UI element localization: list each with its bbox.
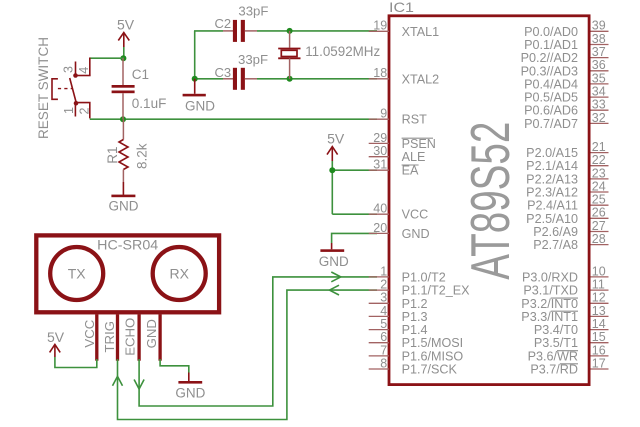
svg-text:12: 12	[592, 291, 606, 305]
svg-text:29: 29	[373, 131, 387, 145]
svg-text:35: 35	[592, 71, 606, 85]
pin 11 P3.1/TXD (right)	[523, 278, 608, 298]
svg-text:P0.1/AD1: P0.1/AD1	[524, 38, 578, 52]
svg-text:P3.0/RXD: P3.0/RXD	[522, 270, 578, 284]
svg-text:6: 6	[380, 330, 387, 344]
svg-text:9: 9	[380, 107, 387, 121]
svg-text:RST: RST	[402, 113, 427, 127]
arrow ECHO right (into IC pin 1)	[331, 272, 341, 282]
node junction XTAL1/crystal	[287, 28, 293, 34]
svg-text:HC-SR04: HC-SR04	[97, 236, 158, 252]
svg-text:28: 28	[592, 232, 606, 246]
wire junction to switch pin4	[90, 57, 124, 59]
svg-text:TX: TX	[68, 266, 87, 282]
pin 32 P0.7/AD7 (right)	[524, 111, 608, 131]
node junction C2/C3/GND	[192, 76, 198, 82]
svg-text:C1: C1	[132, 67, 149, 82]
wire C2 left to C3 left vertical	[194, 31, 196, 79]
pin 31 EA (left)	[369, 158, 419, 178]
ground GND under C2/C3	[183, 79, 216, 114]
svg-text:P0.3//AD3: P0.3//AD3	[521, 64, 578, 78]
wire C3 to IC XTAL2 pin 18	[257, 78, 377, 80]
svg-text:P1.5/MOSI: P1.5/MOSI	[402, 336, 464, 350]
svg-text:34: 34	[592, 85, 606, 99]
pin 17 P3.7/RD (right)	[530, 356, 608, 376]
transducer RX circle	[153, 247, 206, 300]
pin 37 P0.2//AD2 (right)	[521, 45, 609, 65]
resistor R1	[119, 119, 128, 182]
svg-text:RESET SWITCH: RESET SWITCH	[36, 37, 51, 139]
pin 30 ALE (left)	[369, 144, 426, 164]
svg-text:1: 1	[62, 107, 76, 114]
node junction RST/C1/R1	[120, 116, 126, 122]
svg-text:33: 33	[592, 98, 606, 112]
svg-text:C2: C2	[215, 16, 232, 31]
svg-text:31: 31	[373, 158, 387, 172]
svg-text:22: 22	[592, 153, 606, 167]
node junction 5V/C1/switch	[120, 55, 126, 61]
pin 36 P0.3//AD3 (right)	[521, 58, 609, 78]
pin 26 P2.5/A10 (right)	[526, 206, 608, 226]
svg-text:P3.2/INT0: P3.2/INT0	[521, 297, 578, 311]
arrow TRIG left (out of IC pin 2)	[330, 285, 340, 295]
wire 5V to junction	[123, 47, 125, 58]
svg-text:P1.2: P1.2	[402, 297, 428, 311]
wire C2 to IC XTAL1 pin 19	[257, 30, 377, 32]
svg-text:TRIG: TRIG	[102, 321, 117, 353]
svg-text:13: 13	[592, 304, 606, 318]
svg-text:25: 25	[592, 193, 606, 207]
pin 14 P3.4/T0 (right)	[534, 317, 609, 337]
svg-text:5: 5	[380, 317, 387, 331]
node junction 5V/EA	[329, 167, 335, 173]
arrow TRIG up (into sensor)	[113, 376, 123, 386]
pin 33 P0.6/AD6 (right)	[524, 98, 608, 118]
svg-text:P1.7/SCK: P1.7/SCK	[402, 363, 458, 377]
svg-text:11: 11	[592, 278, 605, 292]
svg-text:3: 3	[380, 291, 387, 305]
svg-text:8: 8	[380, 356, 387, 370]
arrow ECHO down (out of sensor)	[134, 380, 144, 390]
supply 5V (sensor)	[47, 329, 65, 357]
svg-text:24: 24	[592, 179, 606, 193]
svg-text:XTAL2: XTAL2	[402, 72, 440, 86]
svg-text:GND: GND	[144, 319, 159, 348]
svg-text:17: 17	[592, 356, 606, 370]
pin 13 P3.3/INT1 (right)	[521, 304, 608, 324]
svg-text:5V: 5V	[327, 131, 345, 147]
svg-text:3: 3	[61, 66, 75, 73]
svg-text:1: 1	[380, 264, 387, 278]
svg-text:RX: RX	[169, 266, 189, 282]
pin 5 P1.4 (left)	[369, 317, 428, 337]
pin 18 XTAL2 (left)	[369, 66, 439, 86]
pin 2 P1.1/T2_EX (left)	[369, 278, 470, 298]
crystal Q1 11.0592MHz	[278, 31, 300, 79]
pin 8 P1.7/SCK (left)	[369, 356, 458, 376]
supply 5V (top left)	[117, 17, 135, 47]
svg-text:XTAL1: XTAL1	[402, 25, 440, 39]
wire ECHO to IC pin 1	[139, 277, 377, 406]
svg-text:30: 30	[373, 144, 387, 158]
svg-text:P0.0/AD0: P0.0/AD0	[524, 25, 578, 39]
svg-text:20: 20	[373, 221, 387, 235]
svg-text:P3.1/TXD: P3.1/TXD	[523, 284, 578, 298]
switch S1 RESET SWITCH	[52, 58, 91, 119]
svg-text:21: 21	[592, 140, 606, 154]
capacitor C2	[223, 20, 257, 42]
pin TRIG stub	[116, 315, 119, 361]
pin 12 P3.2/INT0 (right)	[521, 291, 608, 311]
svg-text:ECHO: ECHO	[123, 318, 138, 356]
wire 5V to VCC pin	[55, 357, 97, 368]
svg-text:P3.3/INT1: P3.3/INT1	[521, 310, 578, 324]
svg-text:23: 23	[592, 166, 606, 180]
svg-text:15: 15	[592, 330, 606, 344]
pin 9 RST (left)	[369, 107, 427, 127]
svg-text:18: 18	[373, 66, 387, 80]
svg-text:11.0592MHz: 11.0592MHz	[305, 44, 380, 59]
svg-text:GND: GND	[109, 199, 139, 214]
pin 21 P2.0/A15 (right)	[526, 140, 608, 160]
IC U1 AT89S52 body	[389, 16, 589, 385]
pin 29 PSEN (left)	[369, 131, 436, 151]
svg-text:GND: GND	[402, 227, 430, 241]
pin 1 P1.0/T2 (left)	[369, 264, 446, 284]
pin GND stub	[158, 315, 161, 361]
svg-text:5V: 5V	[117, 17, 135, 33]
svg-text:P2.2/A13: P2.2/A13	[526, 172, 578, 186]
svg-text:P2.3/A12: P2.3/A12	[526, 186, 578, 200]
pin 19 XTAL1 (left)	[369, 19, 439, 39]
svg-text:P2.4/A11: P2.4/A11	[527, 199, 578, 213]
svg-text:IC1: IC1	[389, 0, 414, 15]
svg-text:14: 14	[592, 317, 606, 331]
pin 24 P2.3/A12 (right)	[526, 179, 608, 199]
svg-text:P3.5/T1: P3.5/T1	[534, 336, 578, 350]
ground GND at IC pin 20	[319, 243, 349, 269]
svg-text:P2.6/A9: P2.6/A9	[533, 225, 578, 239]
module U2 HC-SR04 outline	[36, 235, 219, 312]
svg-text:7: 7	[380, 343, 387, 357]
svg-text:P2.0/A15: P2.0/A15	[526, 146, 578, 160]
svg-text:VCC: VCC	[402, 208, 429, 222]
pin 27 P2.6/A9 (right)	[533, 219, 608, 239]
svg-text:33pF: 33pF	[238, 3, 268, 18]
svg-text:4: 4	[77, 67, 91, 74]
svg-text:AT89S52: AT89S52	[459, 122, 521, 280]
pin 39 P0.0/AD0 (right)	[524, 19, 608, 39]
pin 3 P1.2 (left)	[369, 291, 428, 311]
svg-text:P1.3: P1.3	[402, 310, 428, 324]
svg-text:VCC: VCC	[82, 319, 97, 347]
svg-text:27: 27	[592, 219, 606, 233]
pin 4 P1.3 (left)	[369, 304, 428, 324]
pin 6 P1.5/MOSI (left)	[369, 330, 463, 350]
svg-text:GND: GND	[185, 99, 215, 114]
svg-text:P0.2//AD2: P0.2//AD2	[521, 51, 578, 65]
svg-text:P1.4: P1.4	[402, 323, 428, 337]
svg-text:39: 39	[592, 19, 606, 33]
svg-text:P2.7/A8: P2.7/A8	[533, 238, 578, 252]
svg-text:4: 4	[380, 304, 387, 318]
capacitor C1	[112, 58, 135, 119]
pin 15 P3.5/T1 (right)	[534, 330, 609, 350]
svg-text:10: 10	[592, 264, 606, 278]
wire sensor GND to ground	[160, 359, 189, 373]
svg-text:33pF: 33pF	[238, 52, 268, 67]
svg-text:2: 2	[380, 278, 387, 292]
svg-text:P3.4/T0: P3.4/T0	[534, 323, 578, 337]
pin 25 P2.4/A11 (right)	[527, 193, 608, 213]
svg-text:P1.0/T2: P1.0/T2	[402, 270, 446, 284]
pin 38 P0.1/AD1 (right)	[524, 32, 608, 52]
pin 35 P0.4/AD4 (right)	[524, 71, 608, 91]
pin 28 P2.7/A8 (right)	[533, 232, 608, 252]
svg-text:36: 36	[592, 58, 606, 72]
wire TRIG to IC pin 2	[118, 290, 378, 419]
svg-text:P2.1/A14: P2.1/A14	[526, 159, 578, 173]
svg-text:0.1uF: 0.1uF	[132, 96, 167, 111]
pin VCC stub	[95, 315, 98, 361]
ground GND (sensor)	[175, 373, 205, 401]
wire GND pin 20	[332, 233, 377, 243]
pin 16 P3.6/WR (right)	[528, 343, 609, 363]
node junction XTAL2/crystal	[287, 76, 293, 82]
svg-text:R1: R1	[105, 146, 120, 163]
pin ECHO stub	[137, 315, 140, 361]
svg-text:16: 16	[592, 343, 606, 357]
wire C2 row left segment	[194, 30, 223, 32]
svg-text:8.2k: 8.2k	[134, 143, 149, 169]
svg-text:ALE: ALE	[402, 150, 426, 164]
svg-text:EA: EA	[402, 164, 419, 178]
pin 40 VCC (left)	[369, 202, 428, 222]
svg-text:GND: GND	[175, 386, 205, 401]
svg-text:P0.4/AD4: P0.4/AD4	[524, 77, 578, 91]
capacitor C3	[223, 68, 257, 90]
svg-text:37: 37	[592, 45, 606, 59]
pin 7 P1.6/MISO (left)	[369, 343, 464, 363]
pin 22 P2.1/A14 (right)	[526, 153, 608, 173]
supply 5V (center)	[327, 131, 345, 162]
svg-text:26: 26	[592, 206, 606, 220]
svg-text:38: 38	[592, 32, 606, 46]
svg-text:19: 19	[373, 19, 387, 33]
svg-text:PSEN: PSEN	[402, 137, 436, 151]
svg-text:P3.7/RD: P3.7/RD	[530, 363, 578, 377]
svg-text:P0.5/AD5: P0.5/AD5	[524, 91, 578, 105]
svg-text:GND: GND	[319, 254, 349, 269]
svg-text:P2.5/A10: P2.5/A10	[526, 212, 578, 226]
svg-text:P1.6/MISO: P1.6/MISO	[402, 349, 464, 363]
wire 5V to EA pin 31 and VCC pin 40	[331, 161, 333, 214]
svg-text:2: 2	[77, 108, 91, 115]
svg-text:40: 40	[373, 202, 387, 216]
pin 34 P0.5/AD5 (right)	[524, 85, 608, 105]
svg-text:32: 32	[592, 111, 606, 125]
wire RST net (switch/C1/R1 to IC pin 9)	[90, 118, 377, 120]
pin 23 P2.2/A13 (right)	[526, 166, 608, 186]
svg-text:P3.6/WR: P3.6/WR	[528, 349, 578, 363]
ground GND under R1	[109, 182, 139, 214]
transducer TX circle	[50, 247, 103, 300]
wire C3 row left segment	[194, 78, 223, 80]
pin 10 P3.0/RXD (right)	[522, 264, 609, 284]
svg-text:C3: C3	[215, 65, 232, 80]
pin 20 GND (left)	[369, 221, 430, 241]
svg-text:P1.1/T2_EX: P1.1/T2_EX	[402, 284, 471, 298]
svg-text:P0.7/AD7: P0.7/AD7	[524, 117, 578, 131]
svg-text:5V: 5V	[47, 329, 65, 345]
svg-text:P0.6/AD6: P0.6/AD6	[524, 104, 578, 118]
